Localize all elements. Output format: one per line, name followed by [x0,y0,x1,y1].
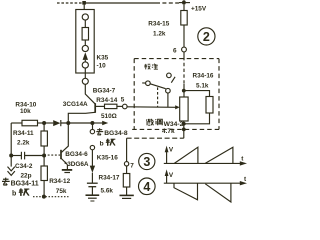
svg-text:-10: -10 [97,62,107,69]
relay terminal circle middle [82,45,88,51]
dashed calibration box left edge [133,59,135,130]
wire [84,60,86,62]
svg-text:5.6k: 5.6k [101,187,114,194]
svg-text:10k: 10k [20,108,31,115]
svg-text:5: 5 [121,97,125,104]
relay K35-16 terminal circle upper [90,129,94,133]
wire [84,20,86,28]
node junction dot R34-11 top [42,121,46,125]
wire top rail end segment [179,2,190,4]
transistor BG34-7 bar [94,103,96,113]
waveform 2 V axis [166,176,168,184]
svg-text:K35-16: K35-16 [97,155,118,162]
resistor R34-17 [123,174,130,188]
wire stub from rail into relay box [83,3,85,10]
svg-text:V: V [169,172,174,179]
relay K35-16 wire top [92,123,94,130]
relay K35-10 box [76,10,94,74]
waveform 1 sawtooth ramp 2 [205,147,233,163]
relay terminal circle lower [82,62,88,68]
svg-text:b: b [12,191,16,198]
svg-text:BG34-11: BG34-11 [11,181,39,188]
dashed wire from pot bottom to terminal 7 [127,137,184,139]
svg-text:R34-11: R34-11 [13,130,34,137]
wire [117,105,123,107]
wiper arrowhead [175,105,180,109]
pin circled 4 [139,178,156,195]
node junction dot collector/emitter [66,121,70,125]
svg-text:510Ω: 510Ω [101,113,117,120]
svg-text:1.2k: 1.2k [153,31,166,38]
svg-text:3CG14A: 3CG14A [63,101,88,108]
label 去BG34-11 b极 [2,178,10,185]
svg-text:+15V: +15V [191,6,207,13]
calibration label (校准) [144,64,150,70]
svg-text:75k: 75k [56,188,67,195]
node junction dot on box edge [182,127,186,131]
dashed calibration box right edge [218,59,220,130]
waveform 1 sawtooth ramp 1 [174,147,198,163]
svg-text:3DG6A: 3DG6A [67,161,89,168]
dashed calibration box bottom edge [132,128,219,130]
transistor BG34-6 base lead [44,154,60,156]
wire [38,122,54,124]
wire left rail [10,123,12,167]
svg-text:BG34-6: BG34-6 [65,151,88,158]
wire [126,187,128,195]
svg-text:t: t [241,155,244,162]
resistor R34-14 [105,104,117,108]
wire node6 down dashed inside box [183,57,185,84]
svg-text:V: V [169,146,174,153]
switch contact circle B [167,73,172,78]
resistor R34-15 [183,3,185,11]
wire node6 down solid [183,52,185,57]
switch pole terminal circle A [146,81,151,86]
node junction dot base node [42,154,46,158]
waveform 2 inverted sawtooth 1 [174,183,198,200]
node 6 terminal circle [182,47,187,52]
wire left [11,122,22,124]
wire capacitor to ground [91,187,93,195]
waveform 2 inverted sawtooth 2 [205,183,231,202]
node junction dot K35-16 top [90,121,94,125]
wire pot bottom down [183,121,185,138]
wire [91,150,93,166]
capacitor C34-2 plates [20,152,22,160]
ground BG34-6 emitter [62,169,72,171]
svg-text:2.2k: 2.2k [17,139,30,146]
wire to R34-16 top [184,91,210,97]
svg-text:R34-16: R34-16 [193,73,214,80]
diode cathode bar [60,120,62,126]
svg-text:C34-2: C34-2 [15,163,33,170]
wire R34-12 to bottom rail [43,181,45,197]
terminal circle 5 [123,104,128,109]
switch pole stub [142,82,145,84]
svg-text:7: 7 [130,162,134,169]
wire emitter to ground [66,164,68,169]
waveform 1 baseline with arrow [164,162,241,164]
wire node6 down to pot top [183,84,185,97]
wire [126,166,128,174]
svg-text:t: t [244,176,247,183]
pin circled 2 [198,28,215,45]
potentiometer W34-2 label [146,119,153,125]
node junction dot relay feed [82,1,86,5]
transistor BG34-6 bar [60,150,62,159]
wire top rail dashed left part [57,2,84,4]
wire arrow to BG34-8 [92,122,103,124]
terminal circle below relay box [82,78,88,84]
wire rail [61,122,93,124]
resistor R34-11 [41,131,47,146]
svg-text:R34-17: R34-17 [99,174,120,181]
wire from relay to collector terminal [84,68,86,79]
ground R34-17 [120,194,134,196]
svg-text:R34-14: R34-14 [96,97,117,104]
svg-text:BG34-8: BG34-8 [104,130,128,137]
resistor R34-16 [206,97,213,114]
capacitor C34-2 left lead [11,155,21,157]
svg-text:K35: K35 [97,55,109,62]
svg-text:R34-15: R34-15 [148,21,169,28]
diode triangle [53,120,60,126]
svg-text:5.1k: 5.1k [196,82,209,89]
svg-text:W34-2: W34-2 [164,121,184,128]
switch linkage dashed [157,87,159,107]
transistor BG34-6 emitter with arrow [61,158,67,164]
svg-text:6: 6 [173,47,177,54]
svg-text:2: 2 [203,30,210,44]
node junction dot pot top [182,89,186,93]
transistor BG34-7 collector wire [85,84,95,104]
relay K35-16 terminal circle lower [90,145,94,149]
node +15V junction dot [182,1,185,4]
pin circled 3 [139,153,155,169]
wire [84,40,86,46]
resistor inside relay [82,28,88,41]
potentiometer W34-2 body [180,97,188,121]
svg-text:R34-12: R34-12 [49,178,70,185]
node junction dot pot bottom [182,122,186,126]
capacitor plates [87,182,98,184]
wire R34-11 to R34-12 [43,146,45,166]
waveform 2 baseline with arrow [164,182,241,184]
transistor BG34-7 base lead [95,105,104,107]
relay contact arrow [83,52,88,60]
switch lever [150,84,166,89]
wire R34-16 bottom to pot bottom [184,113,210,124]
wire to capacitor [91,173,93,184]
svg-text:4: 4 [143,180,150,194]
wire bottom dashed rail [33,196,69,198]
label 去BG34-8 b极 [96,128,103,135]
waveform 1 V axis [166,152,168,164]
capacitor C34-2 right lead [25,155,44,157]
transistor BG34-6 collector wire [61,123,68,152]
svg-text:BG34-7: BG34-7 [93,87,116,94]
dashed calibration box top edge [134,58,219,60]
resistor R34-10 [22,120,38,126]
node junction dot left rail [9,154,13,158]
goto arrow chevrons [8,167,15,171]
node junction dot bottom rail [42,195,46,199]
wiper wire to potentiometer [127,106,176,109]
relay K35-16 contact arrow down [90,166,95,173]
svg-text:22p: 22p [21,172,32,179]
svg-text:3: 3 [143,155,150,169]
wire top rail solid middle [84,2,156,4]
switch contact circle C [166,88,171,93]
terminal circle 7 [124,162,128,166]
wire [43,123,45,131]
transistor BG34-7 emitter wire [68,112,95,121]
wire top rail dashed right part [156,2,179,4]
svg-text:b: b [100,140,104,147]
switch contact tick [171,77,175,83]
wire down to terminal 7 [126,138,128,161]
wire switch C to wiper line [167,93,169,107]
ground symbol [86,194,100,196]
relay terminal circle top [82,14,88,20]
resistor R34-12 [41,166,47,181]
